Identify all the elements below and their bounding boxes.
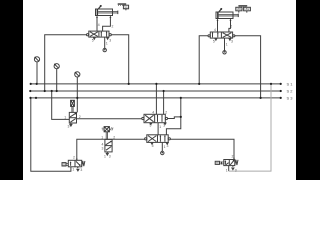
svg-text:1: 1 [72,167,74,171]
svg-text:1B2: 1B2 [244,7,250,11]
svg-text:3: 3 [163,124,165,128]
wire valve D port2 up and to V-B left pilot [77,139,145,161]
valve D port2 arrow [76,159,78,161]
svg-text:1: 1 [101,136,103,140]
bus line S1 [31,83,281,85]
bus line S2 [30,90,280,92]
svg-text:2: 2 [165,111,167,115]
svg-text:1: 1 [226,168,228,172]
svg-text:1: 1 [226,42,228,46]
wire 1V1 right pilot to S3 [235,36,261,98]
wire S3 to valve D port1 [31,98,71,171]
wire 2V1 right pilot to S1 [111,35,128,84]
svg-text:2: 2 [113,135,115,139]
valve 1V1 pilot ports [208,35,235,37]
svg-text:4: 4 [98,23,100,27]
valve G body [105,139,112,155]
svg-text:2B1: 2B1 [124,5,130,9]
valve C spring [235,160,238,165]
wire S3 drop to V-B port2 [166,98,180,135]
valve 1V1 exhausts and supply [215,38,231,54]
ruler 1A1 [236,5,251,13]
cylinder 1A1 port lines [217,19,232,32]
gauge Z2 [54,64,59,92]
svg-text:1: 1 [104,154,106,158]
wire V-A right pilot jog to S3 drop [168,117,181,119]
valve D exhaust [77,167,79,171]
valve V-B supply [151,142,168,154]
svg-text:2: 2 [112,24,114,28]
svg-text:1: 1 [159,125,161,129]
valve C bottom ports [229,166,234,172]
svg-text:1: 1 [164,145,166,149]
svg-text:3: 3 [109,39,111,43]
svg-text:1: 1 [106,42,108,46]
valve V-A top ports to S1,S2 [156,84,163,114]
svg-text:5: 5 [150,124,152,128]
wire 1V1 left pilot to S1 [199,36,208,84]
svg-text:2: 2 [230,25,232,29]
svg-text:3: 3 [102,147,104,151]
wire S1 to valve C port1 (gray) [229,84,271,171]
wire valve E port2 to V-A left pilot [77,118,142,120]
wire V-A port1 to V-B [157,123,159,135]
valve D (3/2 roller) label box [62,163,68,166]
svg-text:1B1: 1B1 [236,7,242,11]
valve 2V1 body [89,31,109,37]
valve V-A exhausts [150,123,166,125]
valve V-A pilots [142,117,168,119]
gauge Z1 [34,57,39,84]
svg-text:5: 5 [213,40,215,44]
gauge Z3 [75,72,80,113]
valve E body [69,112,76,126]
valve 2V1 pilot ports [87,34,112,36]
svg-text:2: 2 [79,115,81,119]
left black pillar [0,0,23,180]
svg-text:5: 5 [92,39,94,43]
svg-text:3: 3 [80,168,82,172]
valve D spring [82,161,85,166]
valve V-B pilots [145,138,171,140]
right black pillar [296,0,320,180]
valve V-A body (cascade memory 1) [144,114,165,122]
svg-text:1: 1 [64,115,66,119]
cylinder 1A1 [216,8,238,19]
valve C body [224,160,235,166]
wire S2 to valve E port1 [52,91,70,119]
svg-text:3: 3 [68,125,70,129]
svg-text:S 2: S 2 [287,89,294,94]
valve E (sequence) actuator box [71,100,75,112]
svg-text:2: 2 [73,155,75,159]
svg-text:5: 5 [152,144,154,148]
svg-text:4: 4 [152,111,154,115]
cylinder 2A1 port lines [96,16,111,32]
bus line S3 [31,97,281,99]
svg-text:S 1: S 1 [287,81,294,86]
valve 2V1 exhausts and supply [93,37,108,52]
wire 2V1 left pilot to S2 [45,35,87,91]
valve C (3/2 roller) label box [215,161,224,164]
valve C port2 arrow [233,158,235,160]
svg-text:S 3: S 3 [287,95,294,100]
wire V-B right pilot to valve 2S2 port [170,139,234,159]
svg-text:2: 2 [232,155,234,159]
valve G (timer) label marks [102,127,113,140]
junction dots [29,83,282,118]
svg-text:3: 3 [109,154,111,158]
svg-text:3: 3 [167,144,169,148]
valve 1V1 body [210,32,232,38]
ruler 2A1 [118,3,129,10]
cylinder 2A1 [96,5,118,16]
valve V-B body (cascade memory 2) [147,135,168,143]
valve D body [68,160,81,167]
svg-text:3: 3 [231,40,233,44]
svg-text:4: 4 [214,28,216,32]
svg-text:3: 3 [235,168,237,172]
